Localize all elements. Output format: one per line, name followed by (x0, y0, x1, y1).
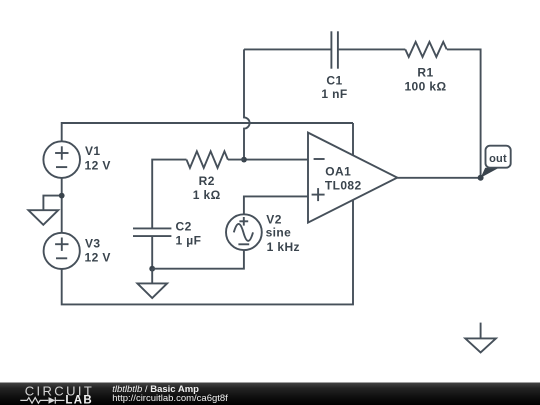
label C2 (176, 220, 202, 248)
svg-text:R1: R1 (417, 65, 433, 79)
voltage source V1 circle (43, 141, 80, 178)
wire C1 to R1 (338, 48, 405, 50)
op-amp OA1 minus input symbol (314, 158, 325, 160)
svg-text:C1: C1 (326, 73, 342, 87)
voltage source V3 minus mark (56, 257, 67, 259)
wire R1 to output corner (447, 49, 481, 177)
capacitor C1 (331, 31, 338, 68)
svg-text:OA1: OA1 (325, 164, 351, 178)
ground GND1 at V1/V3 midpoint (28, 196, 61, 225)
svg-text:http://circuitlab.com/ca6gt8f: http://circuitlab.com/ca6gt8f (112, 393, 228, 404)
out flag box (481, 146, 511, 178)
wire R2 left lead and corner down to C2 (152, 160, 186, 229)
footer bar (0, 383, 540, 405)
wire V1 to V3 (61, 196, 63, 233)
op-amp OA1 plus input symbol (312, 188, 325, 201)
voltage source V1 minus mark (56, 166, 67, 168)
wire ground node to V2 bottom (152, 250, 244, 269)
svg-text:12 V: 12 V (85, 158, 111, 172)
voltage source V1 plus mark (55, 146, 68, 159)
op-amp OA1 triangle (308, 133, 397, 223)
voltage source V2 circle (226, 214, 262, 250)
svg-text:1 kHz: 1 kHz (267, 240, 300, 254)
svg-text:100 kΩ: 100 kΩ (404, 79, 446, 93)
wire op-amp output (397, 177, 480, 179)
svg-text:12 V: 12 V (85, 251, 111, 265)
label R1 (404, 65, 446, 93)
wire inverting input from node A (244, 159, 308, 161)
node junction dot output (478, 175, 484, 181)
ground GND2 below C2 (137, 269, 167, 298)
svg-text:C2: C2 (176, 220, 192, 234)
label V1 (85, 144, 111, 172)
wire V2 top to non-inverting input (244, 196, 308, 214)
label C1 (321, 73, 347, 101)
svg-text:V2: V2 (266, 212, 281, 226)
svg-text:sine: sine (266, 226, 292, 240)
svg-text:TL082: TL082 (325, 179, 362, 193)
svg-text:LAB: LAB (65, 395, 93, 405)
svg-text:R2: R2 (199, 174, 215, 188)
resistor R2 (187, 151, 228, 168)
wire feedback vertical with hop over positive rail (244, 49, 250, 159)
node junction dot V1/V3/GND1 (59, 193, 65, 199)
label op-amp OA1 (325, 164, 362, 192)
svg-text:1 kΩ: 1 kΩ (193, 188, 221, 202)
wire op-amp V+ power pin (352, 123, 354, 155)
footer CircuitLab logo (20, 384, 94, 405)
voltage source V3 plus mark (55, 238, 68, 251)
label V3 (85, 237, 111, 265)
voltage source V2 plus mark (239, 217, 248, 226)
wire positive rail V1 top to op-amp V+ (62, 123, 353, 141)
wire R2 right lead to node A (228, 159, 244, 161)
capacitor C2 (133, 228, 171, 236)
wire V1 bottom stub (61, 178, 63, 196)
node junction dot C2/V2/GND2 (149, 266, 155, 272)
label R2 (193, 174, 221, 202)
svg-text:1 nF: 1 nF (321, 87, 347, 101)
wire feedback top horizontal to C1 (244, 48, 331, 50)
resistor R1 (405, 42, 446, 57)
svg-text:1 µF: 1 µF (176, 233, 202, 247)
node junction dot A (R2/C1/inverting input) (241, 157, 247, 163)
wire C2 bottom to ground node (151, 236, 153, 269)
svg-text:V3: V3 (85, 237, 100, 251)
voltage source V2 minus mark (238, 243, 249, 245)
svg-text:out: out (489, 153, 507, 165)
svg-text:V1: V1 (85, 144, 100, 158)
wire negative rail V3 bottom to op-amp V- (62, 200, 353, 305)
label V2 (266, 212, 300, 254)
voltage source V2 sine symbol (234, 224, 253, 241)
voltage source V3 circle (44, 233, 80, 269)
ground GND3 bottom right (465, 323, 496, 353)
